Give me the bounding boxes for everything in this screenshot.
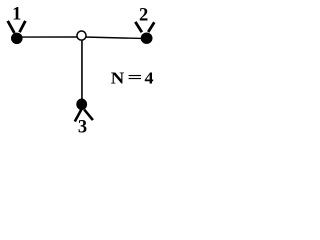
wire: right horizontal from central node to vertex 2: [84, 37, 147, 39]
leg: vertex 2 upper-right external line: [148, 22, 154, 32]
vertex dot 1 (filled): [11, 33, 23, 44]
equals sign bottom bar: [129, 78, 141, 79]
wire: vertical from central node down to vertex 3: [81, 38, 83, 100]
svg-text:N: N: [111, 68, 125, 87]
wire: left horizontal from vertex 1 to central node: [17, 36, 82, 38]
vertex dot 3 (filled): [76, 99, 87, 111]
svg-text:1: 1: [12, 5, 21, 25]
vertex dot 2 (filled): [141, 33, 153, 44]
svg-text:4: 4: [144, 68, 153, 87]
leg: vertex 1 upper-right external line: [20, 21, 26, 32]
svg-text:2: 2: [139, 5, 148, 25]
svg-text:3: 3: [78, 118, 87, 138]
text N of "N = 4": [111, 68, 125, 87]
leg: vertex 3 lower-left external line: [75, 109, 82, 121]
leg: vertex 1 upper-left external line: [8, 21, 15, 33]
node: central open circle: [77, 31, 86, 40]
text 4 of "N = 4": [144, 68, 153, 87]
leg: vertex 3 lower-right external line: [84, 110, 93, 121]
equals sign top bar: [129, 75, 141, 76]
leg: vertex 2 upper-left external line: [135, 22, 142, 32]
